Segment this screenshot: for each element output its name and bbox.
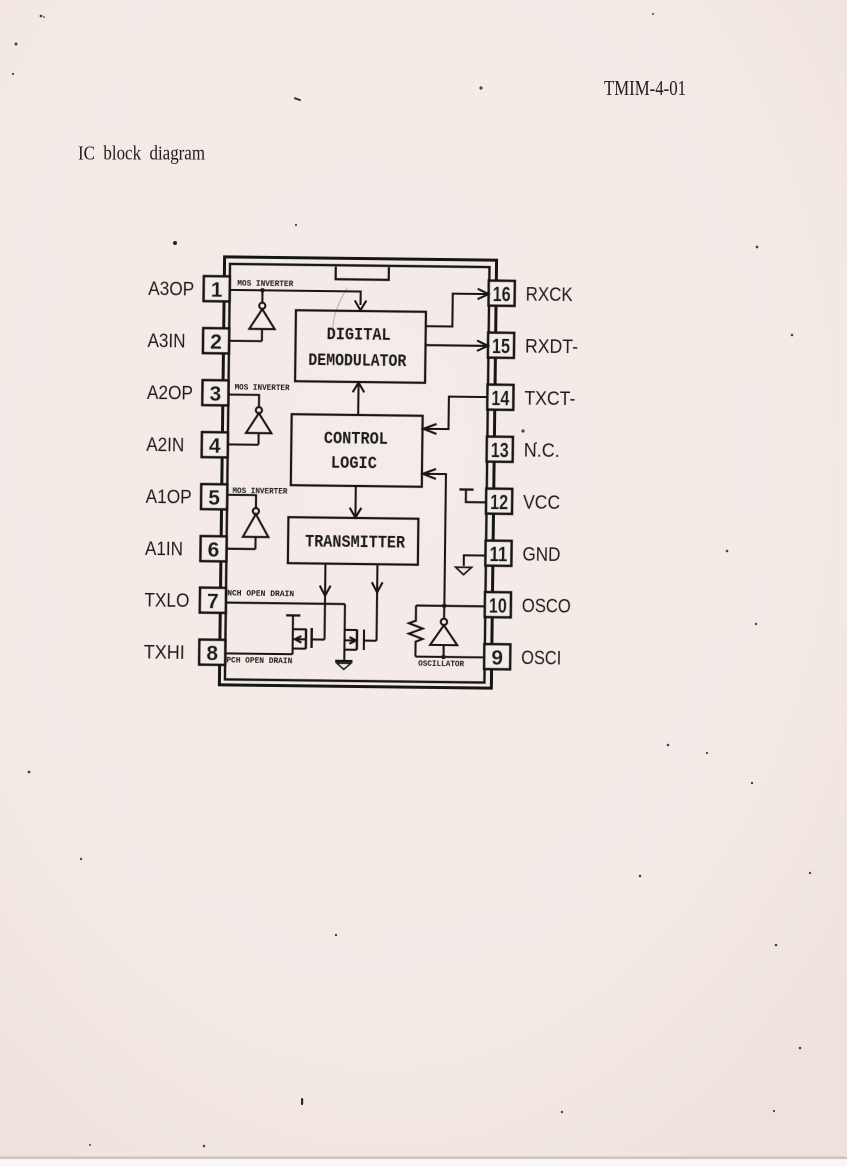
svg-text:OSCI: OSCI — [521, 648, 561, 669]
PMOS transistor (pin 8 driver) — [286, 615, 325, 654]
oscillator inverter — [430, 606, 458, 657]
IC package outer outline — [219, 257, 496, 688]
svg-text:5: 5 — [208, 487, 220, 510]
svg-text:12: 12 — [490, 491, 508, 514]
block DIGITAL DEMODULATOR — [295, 310, 426, 383]
svg-text:16: 16 — [493, 283, 511, 306]
svg-text:4: 4 — [209, 435, 221, 458]
pin 3 — [202, 380, 228, 406]
svg-text:1: 1 — [211, 279, 223, 302]
junction dot OSCI/inverter — [441, 655, 446, 660]
transmitter left output wire — [319, 564, 331, 640]
pin 16 — [489, 281, 515, 307]
svg-text:11: 11 — [489, 543, 508, 566]
svg-text:OSCILLATOR: OSCILLATOR — [418, 659, 465, 670]
pin 13 — [487, 437, 513, 463]
svg-text:A1OP: A1OP — [146, 487, 192, 509]
svg-text:2: 2 — [210, 331, 222, 354]
GND symbol at pin 11 — [456, 555, 486, 575]
pin 15 — [488, 333, 514, 359]
svg-text:VCC: VCC — [523, 493, 560, 514]
svg-text:DEMODULATOR: DEMODULATOR — [308, 351, 407, 372]
pin 1 — [204, 276, 230, 302]
svg-text:MOS INVERTER: MOS INVERTER — [237, 279, 294, 290]
svg-text:N.C.: N.C. — [524, 441, 560, 462]
wire pin1 to demodulator top — [229, 290, 366, 310]
scan scratch mark — [333, 288, 348, 334]
wire pin 7 (NCH open drain) — [226, 603, 345, 604]
wire demodulator to pin 16 — [426, 288, 489, 327]
svg-text:DIGITAL: DIGITAL — [327, 325, 391, 346]
wire pin 14 to control logic — [423, 396, 487, 434]
pin 10 — [485, 592, 511, 618]
svg-text:TXLO: TXLO — [144, 590, 189, 612]
svg-text:TMIM-4-01: TMIM-4-01 — [604, 76, 686, 100]
transmitter right output wire — [371, 564, 383, 641]
svg-text:7: 7 — [207, 590, 219, 613]
pin 11 — [485, 541, 511, 567]
IC package index notch — [336, 267, 389, 280]
MOS inverter A1 — [227, 495, 269, 549]
svg-text:13: 13 — [491, 439, 509, 462]
svg-text:A1IN: A1IN — [145, 539, 183, 560]
svg-text:RXDT-: RXDT- — [525, 337, 578, 359]
svg-text:TRANSMITTER: TRANSMITTER — [305, 533, 406, 554]
svg-text:A3IN: A3IN — [147, 331, 185, 352]
block CONTROL LOGIC — [291, 414, 423, 487]
VCC rail symbol at pin 12 — [459, 489, 486, 502]
svg-text:PCH OPEN DRAIN: PCH OPEN DRAIN — [226, 655, 292, 666]
wire oscillator to control logic — [421, 469, 446, 606]
block TRANSMITTER — [288, 517, 419, 565]
svg-text:CONTROL: CONTROL — [324, 429, 388, 450]
pin 8 — [199, 640, 225, 666]
wire pin 9 (OSCI) — [415, 656, 484, 659]
svg-text:15: 15 — [492, 335, 511, 358]
scanner bottom edge — [0, 1157, 847, 1160]
svg-text:OSCO: OSCO — [522, 596, 571, 618]
svg-text:TXCT-: TXCT- — [524, 389, 575, 411]
ground symbol below NMOS — [335, 661, 352, 670]
svg-text:A3OP: A3OP — [148, 279, 194, 301]
svg-text:MOS INVERTER: MOS INVERTER — [235, 382, 291, 393]
svg-text:TXHI: TXHI — [144, 642, 185, 663]
pin 5 — [201, 484, 227, 510]
svg-text:A2IN: A2IN — [146, 435, 184, 456]
pin 6 — [200, 536, 226, 562]
pin 9 — [484, 644, 510, 670]
IC package inner outline — [225, 264, 490, 683]
junction dot on pin1 wire — [260, 288, 265, 293]
svg-text:10: 10 — [489, 595, 507, 618]
svg-text:RXCK: RXCK — [526, 285, 574, 307]
pin 7 — [200, 588, 226, 614]
svg-text:6: 6 — [208, 539, 220, 562]
pin 14 — [487, 385, 513, 411]
pin 12 — [486, 489, 512, 515]
svg-text:14: 14 — [491, 387, 510, 410]
wire pin 8 (PCH open drain) — [225, 652, 292, 655]
svg-text:LOGIC: LOGIC — [331, 454, 378, 475]
junction dot OSCO/inverter — [442, 604, 447, 609]
svg-text:GND: GND — [522, 545, 560, 566]
svg-text:NCH OPEN DRAIN: NCH OPEN DRAIN — [227, 589, 294, 600]
wire demodulator to pin 15 — [425, 340, 488, 351]
MOS inverter A3 — [229, 290, 275, 341]
svg-text:8: 8 — [206, 642, 218, 665]
NMOS transistor (pin 7 driver) — [344, 604, 377, 661]
svg-text:IC block diagram: IC block diagram — [78, 143, 205, 165]
svg-text:9: 9 — [491, 647, 503, 670]
MOS inverter A2 — [228, 395, 272, 445]
wire control logic to demodulator — [352, 382, 364, 415]
svg-text:A2OP: A2OP — [147, 383, 193, 405]
oscillator feedback resistor — [408, 605, 423, 656]
wire control logic to transmitter — [350, 486, 362, 518]
wire pin 10 (OSCO) — [416, 604, 485, 607]
pin 4 — [202, 432, 228, 458]
pin 2 — [203, 328, 229, 354]
svg-text:3: 3 — [209, 383, 221, 406]
